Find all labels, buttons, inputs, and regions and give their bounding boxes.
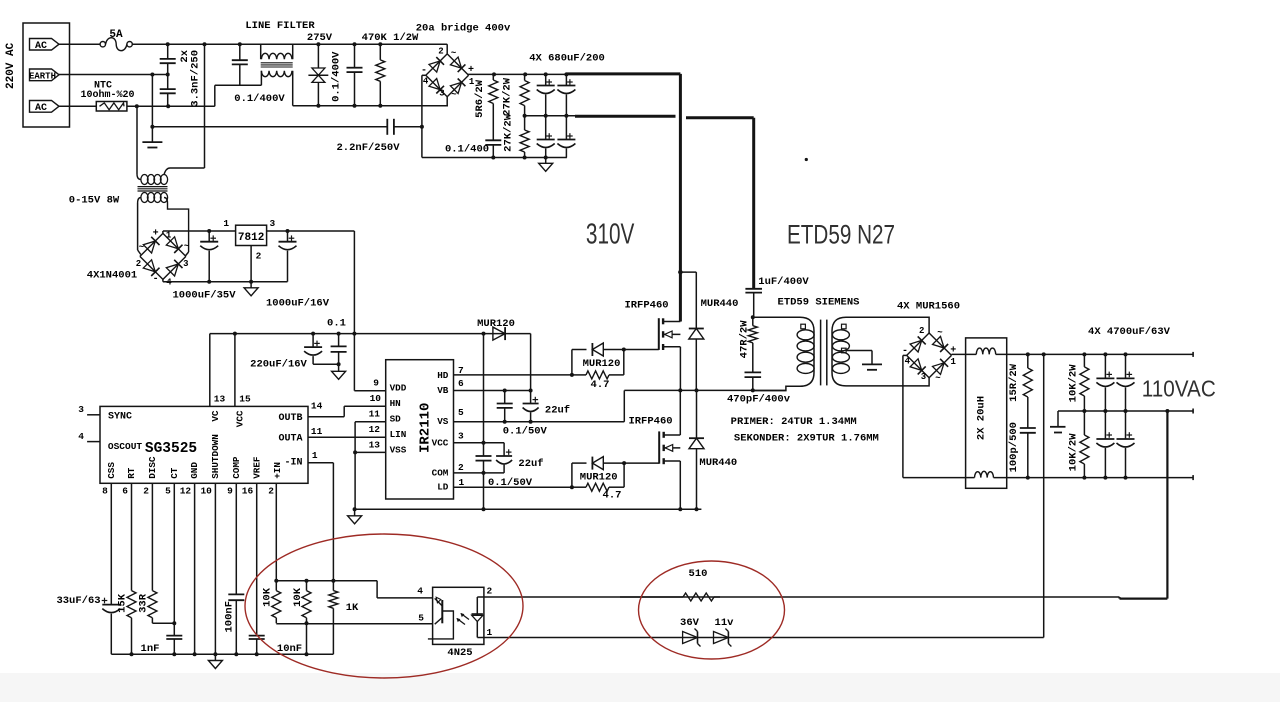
svg-text:15K: 15K	[117, 593, 129, 613]
svg-text:310V: 310V	[586, 219, 635, 251]
svg-text:15: 15	[239, 394, 251, 405]
svg-text:10: 10	[370, 393, 382, 404]
svg-text:100nF: 100nF	[224, 601, 236, 633]
svg-text:LIN: LIN	[390, 429, 407, 440]
svg-text:1nF: 1nF	[141, 643, 160, 655]
svg-text:VS: VS	[437, 416, 449, 427]
svg-text:0.1/400V: 0.1/400V	[234, 93, 285, 105]
svg-text:7812: 7812	[238, 232, 264, 244]
svg-text:MUR440: MUR440	[699, 457, 737, 469]
svg-text:2X 20uH: 2X 20uH	[975, 396, 987, 440]
svg-text:+: +	[153, 228, 159, 239]
svg-text:4.7: 4.7	[591, 379, 610, 391]
svg-text:2: 2	[919, 326, 924, 336]
svg-text:5: 5	[418, 613, 424, 624]
svg-text:10ohm-%20: 10ohm-%20	[80, 89, 134, 101]
svg-text:4: 4	[417, 586, 423, 597]
svg-text:1K: 1K	[346, 602, 359, 614]
svg-text:5R6/2W: 5R6/2W	[474, 79, 486, 118]
svg-text:100p/500: 100p/500	[1008, 422, 1020, 472]
svg-text:0.1/400: 0.1/400	[445, 144, 489, 156]
svg-text:CT: CT	[169, 467, 180, 479]
svg-text:PRIMER: 24TUR 1.34MM: PRIMER: 24TUR 1.34MM	[731, 416, 857, 428]
svg-text:~: ~	[451, 49, 456, 59]
svg-text:0.1/50V: 0.1/50V	[503, 426, 548, 438]
svg-text:OSCOUT: OSCOUT	[108, 441, 143, 452]
svg-text:VREF: VREF	[251, 456, 262, 479]
svg-text:13: 13	[214, 394, 226, 405]
svg-text:-: -	[153, 274, 159, 285]
svg-text:1: 1	[223, 218, 229, 229]
svg-text:10K/2W: 10K/2W	[1068, 433, 1080, 472]
svg-text:VCC: VCC	[235, 410, 246, 427]
svg-text:~: ~	[937, 328, 942, 338]
svg-text:VB: VB	[437, 385, 449, 396]
svg-text:SEKONDER: 2X9TUR 1.76MM: SEKONDER: 2X9TUR 1.76MM	[734, 433, 879, 445]
svg-text:0.1/400V: 0.1/400V	[331, 51, 343, 102]
svg-text:5: 5	[458, 407, 464, 418]
svg-text:4: 4	[78, 431, 84, 442]
svg-text:AC: AC	[35, 41, 47, 52]
svg-text:3: 3	[270, 218, 276, 229]
svg-text:LINE FILTER: LINE FILTER	[245, 20, 315, 32]
svg-text:11v: 11v	[715, 617, 735, 629]
svg-text:47R/2W: 47R/2W	[739, 320, 751, 359]
svg-text:GND: GND	[189, 462, 200, 479]
svg-text:220uF/16V: 220uF/16V	[250, 359, 307, 371]
svg-text:4.7: 4.7	[603, 490, 622, 502]
svg-text:~: ~	[451, 90, 456, 100]
svg-text:SYNC: SYNC	[108, 412, 132, 423]
svg-text:8: 8	[102, 486, 108, 497]
svg-text:0-15V 8W: 0-15V 8W	[69, 195, 120, 207]
svg-text:EARTH: EARTH	[29, 71, 56, 81]
svg-text:11: 11	[369, 408, 381, 419]
svg-text:~: ~	[935, 374, 940, 384]
svg-text:13: 13	[369, 439, 381, 450]
svg-text:0.1/50V: 0.1/50V	[488, 477, 533, 489]
svg-text:3: 3	[921, 372, 926, 382]
svg-text:3: 3	[78, 404, 84, 415]
svg-text:VCC: VCC	[432, 438, 449, 449]
svg-text:3: 3	[458, 430, 464, 441]
svg-text:SG3525: SG3525	[145, 441, 197, 457]
svg-text:VC: VC	[210, 410, 221, 422]
svg-text:10K/2W: 10K/2W	[1068, 364, 1080, 403]
svg-text:470pF/400v: 470pF/400v	[727, 394, 791, 406]
svg-text:1: 1	[312, 450, 318, 461]
svg-text:SD: SD	[390, 414, 402, 425]
svg-text:ETD59 N27: ETD59 N27	[787, 220, 895, 250]
svg-text:CSS: CSS	[106, 462, 117, 479]
svg-text:AC: AC	[35, 103, 47, 114]
svg-text:4X1N4001: 4X1N4001	[87, 270, 137, 282]
svg-text:-IN: -IN	[284, 458, 302, 469]
svg-text:OUTA: OUTA	[278, 433, 302, 444]
svg-text:14: 14	[311, 401, 323, 412]
svg-text:-: -	[421, 66, 427, 77]
svg-text:275V: 275V	[307, 32, 333, 44]
svg-text:36V: 36V	[680, 617, 700, 629]
svg-text:4: 4	[905, 356, 911, 366]
svg-text:4X 680uF/200: 4X 680uF/200	[529, 53, 605, 65]
svg-text:6: 6	[122, 486, 128, 497]
svg-text:1: 1	[459, 477, 465, 488]
svg-text:SHUTDOWN: SHUTDOWN	[210, 434, 221, 479]
svg-text:2: 2	[486, 586, 492, 597]
svg-text:10: 10	[200, 486, 212, 497]
svg-text:16: 16	[242, 486, 254, 497]
svg-text:2: 2	[268, 486, 274, 497]
svg-text:470K 1/2W: 470K 1/2W	[362, 32, 419, 44]
svg-text:~: ~	[184, 242, 189, 252]
svg-text:2: 2	[438, 47, 443, 57]
svg-text:RT: RT	[126, 467, 137, 479]
svg-text:2: 2	[256, 250, 262, 261]
svg-text:22uf: 22uf	[518, 458, 543, 470]
svg-text:LD: LD	[437, 482, 449, 493]
svg-text:1000uF/16V: 1000uF/16V	[266, 298, 330, 310]
svg-text:HN: HN	[390, 398, 401, 409]
svg-text:1: 1	[486, 627, 492, 638]
svg-text:4X MUR1560: 4X MUR1560	[897, 301, 960, 313]
svg-text:27K/2W: 27K/2W	[503, 113, 515, 152]
svg-text:5A: 5A	[109, 29, 123, 41]
svg-text:33uF/63: 33uF/63	[56, 595, 100, 607]
svg-text:2: 2	[143, 486, 149, 497]
svg-text:12: 12	[369, 424, 381, 435]
svg-text:20a bridge 400v: 20a bridge 400v	[416, 23, 511, 35]
svg-text:10K: 10K	[262, 587, 274, 607]
svg-text:1: 1	[166, 231, 172, 241]
svg-text:IRFP460: IRFP460	[628, 415, 672, 427]
svg-text:3.3nF/250: 3.3nF/250	[190, 50, 202, 107]
svg-text:0.1: 0.1	[327, 318, 346, 330]
svg-text:9: 9	[227, 486, 233, 497]
svg-text:~: ~	[139, 242, 144, 252]
svg-text:15R/2W: 15R/2W	[1008, 363, 1020, 402]
svg-text:MUR120: MUR120	[580, 471, 618, 483]
svg-text:COM: COM	[432, 467, 449, 478]
svg-text:10nF: 10nF	[277, 643, 302, 655]
svg-text:MUR440: MUR440	[701, 298, 739, 310]
svg-text:4N25: 4N25	[447, 647, 472, 659]
svg-text:11: 11	[311, 426, 323, 437]
svg-text:2: 2	[136, 259, 141, 269]
svg-text:IRFP460: IRFP460	[624, 300, 668, 312]
svg-text:+IN: +IN	[272, 462, 283, 479]
svg-text:ETD59 SIEMENS: ETD59 SIEMENS	[778, 297, 860, 309]
svg-text:VSS: VSS	[390, 445, 407, 456]
svg-text:5: 5	[165, 486, 171, 497]
svg-text:DISC: DISC	[147, 456, 158, 479]
svg-text:6: 6	[458, 378, 464, 389]
svg-text:10K: 10K	[292, 587, 304, 607]
svg-text:110VAC: 110VAC	[1142, 376, 1216, 402]
svg-text:MUR120: MUR120	[583, 358, 621, 370]
svg-text:3: 3	[439, 89, 444, 99]
svg-text:9: 9	[373, 377, 379, 388]
svg-text:12: 12	[180, 486, 192, 497]
svg-text:22uf: 22uf	[545, 405, 570, 417]
svg-text:4X 4700uF/63V: 4X 4700uF/63V	[1088, 326, 1171, 338]
svg-text:2.2nF/250V: 2.2nF/250V	[336, 142, 400, 154]
svg-text:220V AC: 220V AC	[5, 42, 17, 89]
svg-text:HD: HD	[437, 370, 449, 381]
svg-text:4: 4	[423, 77, 429, 87]
svg-text:OUTB: OUTB	[278, 413, 302, 424]
svg-text:2: 2	[458, 462, 464, 473]
svg-text:1: 1	[950, 357, 956, 367]
svg-text:VDD: VDD	[390, 383, 407, 394]
svg-text:510: 510	[689, 568, 708, 580]
svg-text:3: 3	[183, 259, 188, 269]
svg-text:27K/2W: 27K/2W	[502, 77, 514, 116]
svg-text:1uF/400V: 1uF/400V	[758, 276, 809, 288]
svg-text:33R: 33R	[138, 593, 150, 613]
svg-text:1000uF/35V: 1000uF/35V	[172, 290, 236, 302]
svg-text:COMP: COMP	[231, 456, 242, 479]
